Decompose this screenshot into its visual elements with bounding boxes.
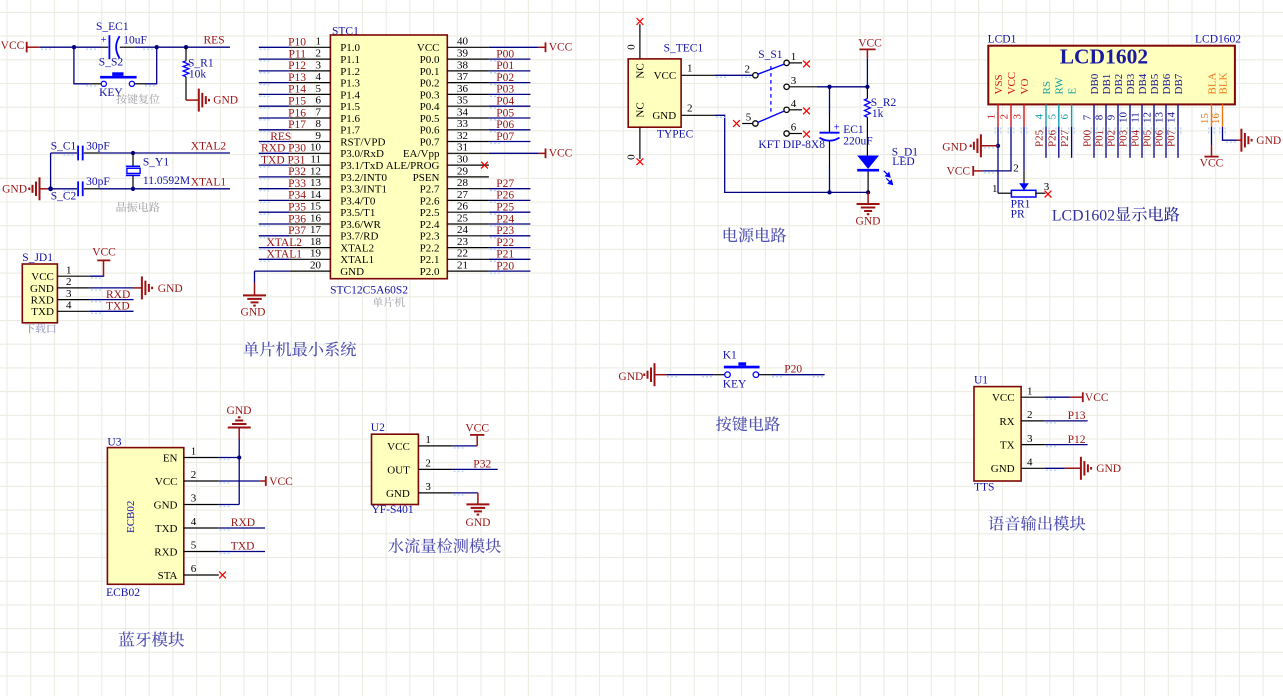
svg-text:P3.6/WR: P3.6/WR bbox=[340, 219, 381, 231]
svg-text:8: 8 bbox=[316, 118, 322, 130]
wire S_EC1 to RES bbox=[120, 46, 135, 48]
svg-text:P1.4: P1.4 bbox=[340, 89, 360, 101]
svg-text:1: 1 bbox=[687, 63, 693, 75]
svg-text:4: 4 bbox=[316, 71, 322, 83]
svg-text:2: 2 bbox=[66, 276, 72, 288]
svg-text:25: 25 bbox=[457, 212, 469, 224]
wire U2 pin3 to GND bbox=[453, 492, 478, 494]
svg-text:YF-S401: YF-S401 bbox=[372, 504, 414, 516]
svg-text:NC: NC bbox=[634, 63, 646, 78]
svg-text:TXD: TXD bbox=[155, 523, 178, 535]
ground (S_JD1) bbox=[142, 276, 152, 299]
wire crystal left vertical bbox=[50, 153, 52, 189]
svg-text:S_Y1: S_Y1 bbox=[143, 157, 169, 169]
wire S_JD1 pin4 TXD bbox=[90, 310, 134, 312]
label 按键复位 bbox=[116, 94, 127, 104]
svg-text:P2.3: P2.3 bbox=[420, 231, 440, 243]
svg-text:RS: RS bbox=[1041, 81, 1053, 94]
svg-text:P13: P13 bbox=[288, 72, 306, 84]
potentiometer PR1 bbox=[1019, 183, 1029, 190]
svg-text:VCC: VCC bbox=[549, 148, 573, 160]
svg-text:38: 38 bbox=[457, 59, 469, 71]
svg-text:P10: P10 bbox=[288, 37, 306, 49]
pin stubs STC1 right bbox=[447, 47, 489, 271]
svg-text:U1: U1 bbox=[974, 374, 988, 386]
svg-text:P2.1: P2.1 bbox=[420, 254, 440, 266]
svg-text:2: 2 bbox=[316, 48, 322, 60]
svg-text:OUT: OUT bbox=[387, 464, 410, 476]
svg-text:VCC: VCC bbox=[1200, 158, 1224, 170]
svg-text:P13: P13 bbox=[1068, 410, 1086, 422]
pin stubs U1 bbox=[1021, 396, 1045, 398]
svg-text:S_C2: S_C2 bbox=[51, 190, 77, 202]
svg-text:19: 19 bbox=[310, 248, 322, 260]
svg-text:30pF: 30pF bbox=[86, 140, 110, 152]
svg-text:14: 14 bbox=[1166, 112, 1178, 124]
svg-text:P06: P06 bbox=[496, 119, 514, 131]
svg-text:P0.6: P0.6 bbox=[420, 125, 440, 137]
label 语音输出模块 bbox=[989, 516, 1004, 531]
svg-text:P0.1: P0.1 bbox=[420, 66, 440, 78]
svg-text:P0.2: P0.2 bbox=[420, 78, 440, 90]
svg-text:P0.3: P0.3 bbox=[420, 89, 440, 101]
svg-text:EN: EN bbox=[163, 452, 178, 464]
svg-text:35: 35 bbox=[457, 95, 469, 107]
svg-text:GND: GND bbox=[154, 499, 178, 511]
svg-text:+: + bbox=[101, 35, 107, 46]
svg-text:10uF: 10uF bbox=[123, 34, 147, 46]
label 水流量检测模块 bbox=[388, 538, 403, 553]
pin stubs STC1 left bbox=[290, 47, 331, 271]
net labels P00-P07 bbox=[496, 48, 514, 142]
svg-text:P01: P01 bbox=[496, 60, 514, 72]
resistor S_R1 10k bbox=[185, 47, 187, 61]
svg-text:3: 3 bbox=[791, 75, 797, 87]
svg-text:17: 17 bbox=[310, 224, 322, 236]
pin 1 stub TYPEC bbox=[681, 74, 715, 76]
svg-text:P2.5: P2.5 bbox=[420, 207, 440, 219]
svg-text:S_R1: S_R1 bbox=[188, 57, 214, 69]
svg-text:TXD P31: TXD P31 bbox=[261, 154, 306, 166]
svg-text:34: 34 bbox=[457, 106, 469, 118]
svg-text:11: 11 bbox=[310, 154, 321, 166]
svg-text:1: 1 bbox=[191, 446, 197, 458]
pin stubs S_JD1 bbox=[57, 275, 89, 277]
svg-text:BLK: BLK bbox=[1217, 72, 1229, 94]
svg-text:P3.4/T0: P3.4/T0 bbox=[340, 195, 376, 207]
svg-text:LED: LED bbox=[892, 156, 914, 168]
svg-text:32: 32 bbox=[457, 130, 468, 142]
svg-text:P3.3/INT1: P3.3/INT1 bbox=[340, 184, 387, 196]
label 蓝牙模块 bbox=[119, 632, 135, 647]
pin stubs LCD1 15-16 bbox=[1211, 104, 1213, 126]
svg-text:10k: 10k bbox=[189, 69, 207, 81]
svg-text:1: 1 bbox=[1027, 385, 1033, 397]
pin names STC1 right bbox=[386, 42, 440, 278]
svg-text:LCD1: LCD1 bbox=[988, 33, 1017, 45]
svg-text:12: 12 bbox=[310, 165, 321, 177]
svg-text:LCD1602: LCD1602 bbox=[1052, 207, 1115, 224]
label 单片机最小系统 bbox=[244, 342, 259, 357]
wire TYPEC pin1 to switch bbox=[715, 74, 753, 76]
pin stubs U3 bbox=[184, 457, 219, 459]
svg-text:RXD: RXD bbox=[231, 517, 255, 529]
svg-text:GND: GND bbox=[618, 371, 643, 383]
svg-text:DB7: DB7 bbox=[1173, 73, 1185, 94]
wire XTAL2 bbox=[51, 152, 77, 154]
wire U1 pin1 to VCC bbox=[1045, 396, 1071, 398]
svg-text:P35: P35 bbox=[288, 202, 306, 214]
svg-text:3: 3 bbox=[191, 493, 197, 505]
svg-text:P17: P17 bbox=[288, 119, 306, 131]
svg-text:P2.4: P2.4 bbox=[420, 219, 440, 231]
svg-text:DB1: DB1 bbox=[1101, 74, 1113, 95]
svg-text:ECB02: ECB02 bbox=[125, 501, 137, 533]
wire TYPEC pin2 to rail bbox=[715, 115, 868, 192]
svg-text:0: 0 bbox=[626, 154, 638, 160]
svg-text:5: 5 bbox=[316, 83, 322, 95]
no-connect X (TYPEC top) bbox=[637, 18, 644, 25]
wire XTAL1 bbox=[51, 188, 77, 190]
junction (LED bottom) bbox=[866, 190, 870, 194]
wire U2 pin2 P32 bbox=[453, 468, 498, 470]
svg-text:GND: GND bbox=[340, 266, 364, 278]
power port VCC (U2) bbox=[476, 435, 478, 446]
no-connect X pin30 bbox=[481, 162, 488, 169]
svg-text:GND: GND bbox=[466, 517, 491, 529]
junction (VSS/GND) bbox=[996, 144, 1000, 148]
capacitor EC1 220uF bbox=[829, 87, 831, 114]
svg-text:S_S2: S_S2 bbox=[99, 56, 124, 68]
svg-text:13: 13 bbox=[1154, 112, 1166, 124]
label 单片机 bbox=[373, 297, 383, 307]
resistor S_R2 1k bbox=[866, 87, 868, 99]
wire GND to K1 bbox=[655, 374, 667, 376]
svg-text:DB0: DB0 bbox=[1089, 73, 1101, 94]
svg-text:2: 2 bbox=[999, 114, 1011, 120]
junction (U3 EN) bbox=[237, 455, 241, 459]
svg-text:S_EC1: S_EC1 bbox=[96, 21, 129, 33]
svg-text:GND: GND bbox=[158, 283, 183, 295]
svg-text:TXD: TXD bbox=[231, 541, 255, 553]
svg-text:28: 28 bbox=[457, 177, 469, 189]
svg-text:P0.4: P0.4 bbox=[420, 101, 440, 113]
wire switch pin3 node bbox=[789, 86, 817, 88]
svg-text:14: 14 bbox=[310, 189, 322, 201]
svg-text:1: 1 bbox=[316, 36, 322, 48]
svg-text:P2.0: P2.0 bbox=[420, 266, 440, 278]
pin stubs LCD1 4-6 bbox=[1045, 104, 1047, 126]
switch pin6 lead and X bbox=[789, 133, 802, 135]
svg-text:11.0592M: 11.0592M bbox=[143, 175, 190, 187]
svg-text:40: 40 bbox=[457, 36, 469, 48]
svg-text:P2.7: P2.7 bbox=[420, 184, 440, 196]
net labels P32-P37 bbox=[288, 166, 306, 237]
wire U1 pin3 P12 bbox=[1045, 444, 1088, 446]
svg-text:VCC: VCC bbox=[417, 42, 440, 54]
svg-text:VO: VO bbox=[1019, 79, 1031, 95]
svg-text:6: 6 bbox=[191, 563, 197, 575]
svg-text:VCC: VCC bbox=[155, 476, 178, 488]
svg-text:P26: P26 bbox=[496, 190, 514, 202]
svg-text:KFT DIP-8X8: KFT DIP-8X8 bbox=[758, 139, 825, 151]
svg-text:DB3: DB3 bbox=[1125, 73, 1137, 94]
svg-text:VCC: VCC bbox=[1085, 392, 1109, 404]
svg-text:XTAL2: XTAL2 bbox=[191, 141, 227, 153]
power port VCC (LCD left) bbox=[972, 166, 974, 176]
svg-text:VCC: VCC bbox=[1, 40, 25, 52]
svg-text:2: 2 bbox=[745, 64, 751, 76]
svg-text:15: 15 bbox=[310, 201, 322, 213]
svg-text:P32: P32 bbox=[288, 166, 306, 178]
junction (S_R1 top) bbox=[184, 45, 188, 49]
wire VO pin3 to wiper bbox=[1023, 127, 1025, 171]
wire U3 pin2 to VCC bbox=[219, 480, 259, 482]
switch pin4 lead and X bbox=[789, 109, 802, 111]
svg-text:P2.2: P2.2 bbox=[420, 243, 440, 255]
svg-text:P1.0: P1.0 bbox=[340, 42, 360, 54]
wire U1 pin4 to GND bbox=[1045, 467, 1065, 469]
svg-text:5: 5 bbox=[1046, 114, 1058, 120]
svg-text:27: 27 bbox=[457, 189, 469, 201]
svg-text:VCC: VCC bbox=[92, 247, 116, 259]
svg-text:P23: P23 bbox=[496, 225, 514, 237]
svg-text:RX: RX bbox=[999, 416, 1014, 428]
svg-text:3: 3 bbox=[1012, 114, 1024, 120]
wire S_S2 right leg bbox=[135, 83, 146, 85]
svg-text:10: 10 bbox=[1118, 112, 1130, 124]
svg-text:33: 33 bbox=[457, 118, 469, 130]
wires DB0-DB7 with net labels P00-P07 bbox=[1093, 127, 1095, 158]
svg-text:P00: P00 bbox=[496, 48, 514, 60]
svg-text:1: 1 bbox=[66, 264, 72, 276]
svg-text:KEY: KEY bbox=[723, 379, 747, 391]
svg-text:P22: P22 bbox=[496, 237, 514, 249]
ground (LCD right) bbox=[1241, 129, 1251, 152]
svg-text:4: 4 bbox=[1034, 114, 1046, 120]
svg-text:4: 4 bbox=[66, 300, 72, 312]
svg-text:P1.6: P1.6 bbox=[340, 113, 360, 125]
svg-text:VCC: VCC bbox=[858, 37, 882, 49]
junction (crystal bottom) bbox=[131, 187, 135, 191]
no-connect X (TYPEC bottom) bbox=[637, 158, 644, 165]
svg-text:S_TEC1: S_TEC1 bbox=[664, 42, 704, 54]
svg-text:P14: P14 bbox=[288, 84, 306, 96]
wire VCC pin2 bbox=[982, 127, 1011, 171]
svg-text:TXD: TXD bbox=[31, 306, 54, 318]
svg-text:STA: STA bbox=[158, 570, 178, 582]
svg-text:PR: PR bbox=[1011, 209, 1025, 221]
junction (VCC rail) bbox=[865, 85, 869, 89]
svg-text:1k: 1k bbox=[872, 108, 884, 120]
svg-text:DB5: DB5 bbox=[1149, 73, 1161, 94]
wire BLA pin15 to VCC bbox=[1211, 127, 1213, 146]
svg-text:6: 6 bbox=[791, 122, 797, 134]
svg-text:GND: GND bbox=[227, 405, 252, 417]
svg-text:KEY: KEY bbox=[99, 87, 123, 99]
power port VCC (U3) bbox=[265, 476, 267, 486]
junction (S_EC1/S_S2 right) bbox=[155, 45, 159, 49]
svg-text:P3.0/RxD: P3.0/RxD bbox=[340, 148, 384, 160]
svg-text:P1.3: P1.3 bbox=[340, 78, 360, 90]
svg-text:P24: P24 bbox=[496, 213, 514, 225]
pin 0 bottom TYPEC bbox=[639, 127, 641, 159]
svg-text:TX: TX bbox=[1000, 440, 1015, 452]
svg-text:VSS: VSS bbox=[993, 74, 1005, 94]
svg-text:DB2: DB2 bbox=[1113, 74, 1125, 95]
svg-text:5: 5 bbox=[746, 112, 752, 124]
svg-text:2: 2 bbox=[191, 469, 197, 481]
svg-text:2: 2 bbox=[1013, 163, 1019, 175]
compile marks bbox=[41, 49, 1236, 553]
svg-text:P3.5/T1: P3.5/T1 bbox=[340, 207, 375, 219]
power port VCC (LCD pin15) bbox=[1211, 145, 1213, 156]
wire BLK pin16 to GND bbox=[1223, 127, 1237, 141]
svg-text:220uF: 220uF bbox=[843, 135, 872, 147]
svg-text:GND: GND bbox=[30, 283, 54, 295]
svg-text:P02: P02 bbox=[496, 72, 514, 84]
svg-text:2: 2 bbox=[687, 103, 693, 115]
wire K1 to P20 bbox=[771, 374, 825, 376]
svg-text:+: + bbox=[834, 122, 840, 134]
svg-text:20: 20 bbox=[310, 260, 322, 272]
svg-text:4: 4 bbox=[1027, 457, 1033, 469]
ground (STC1) bbox=[243, 295, 266, 305]
svg-text:GND: GND bbox=[386, 488, 410, 500]
svg-text:P36: P36 bbox=[288, 213, 306, 225]
svg-text:P37: P37 bbox=[288, 225, 306, 237]
svg-text:16: 16 bbox=[310, 212, 322, 224]
svg-text:GND: GND bbox=[2, 184, 27, 196]
svg-text:13: 13 bbox=[310, 177, 322, 189]
svg-text:P1.1: P1.1 bbox=[340, 54, 360, 66]
svg-text:P2.6: P2.6 bbox=[420, 195, 440, 207]
pin 2 stub TYPEC bbox=[681, 114, 715, 116]
svg-text:VCC: VCC bbox=[992, 392, 1015, 404]
wire U1 pin2 P13 bbox=[1045, 420, 1088, 422]
wire S_R1 to GND bbox=[186, 99, 199, 101]
pin numbers STC1 left 1-20 bbox=[310, 36, 322, 272]
svg-text:VCC: VCC bbox=[549, 42, 573, 54]
pin names STC1 left bbox=[340, 42, 387, 278]
svg-text:P27: P27 bbox=[496, 178, 514, 190]
svg-text:GND: GND bbox=[652, 110, 676, 122]
wire U3 pin4 RXD bbox=[219, 527, 265, 529]
svg-text:3: 3 bbox=[425, 481, 431, 493]
svg-text:VCC: VCC bbox=[465, 422, 489, 434]
svg-text:P3.2/INT0: P3.2/INT0 bbox=[340, 172, 387, 184]
pin numbers STC1 right 40-21 bbox=[457, 36, 469, 272]
wires STC1 left rows bbox=[259, 47, 290, 259]
svg-text:P3.1/TxD: P3.1/TxD bbox=[340, 160, 383, 172]
svg-text:23: 23 bbox=[457, 236, 469, 248]
wire S_JD1 pin2 to GND bbox=[90, 287, 134, 289]
svg-text:S_JD1: S_JD1 bbox=[22, 252, 53, 264]
pin 0 top TYPEC bbox=[639, 24, 641, 59]
svg-text:VCC: VCC bbox=[387, 441, 410, 453]
svg-text:P34: P34 bbox=[288, 190, 306, 202]
ground (U1) bbox=[1081, 457, 1091, 480]
svg-text:18: 18 bbox=[310, 236, 322, 248]
svg-text:9: 9 bbox=[316, 130, 322, 142]
wire U3 EN/GND vertical bbox=[238, 439, 240, 505]
ground (reset) bbox=[199, 89, 209, 112]
svg-text:EC1: EC1 bbox=[843, 124, 864, 136]
svg-text:K1: K1 bbox=[723, 349, 737, 361]
wire S_JD1 pin1 to VCC bbox=[90, 275, 104, 276]
svg-text:3: 3 bbox=[1027, 433, 1033, 445]
svg-text:11: 11 bbox=[1130, 112, 1142, 123]
svg-text:P0.7: P0.7 bbox=[420, 136, 440, 148]
svg-text:P04: P04 bbox=[496, 96, 514, 108]
svg-text:S_S1: S_S1 bbox=[758, 49, 783, 61]
svg-text:31: 31 bbox=[457, 142, 468, 154]
junction (EC1 top) bbox=[827, 85, 831, 89]
svg-text:VCC: VCC bbox=[31, 271, 54, 283]
wires RS RW E with net labels P25-P27 bbox=[1045, 127, 1047, 158]
svg-text:RXD: RXD bbox=[154, 546, 177, 558]
svg-text:XTAL1: XTAL1 bbox=[340, 254, 374, 266]
svg-text:P1.2: P1.2 bbox=[340, 66, 360, 78]
label 电源电路 bbox=[724, 227, 738, 242]
svg-text:P0.0: P0.0 bbox=[420, 54, 440, 66]
svg-text:1: 1 bbox=[791, 51, 797, 63]
svg-text:6: 6 bbox=[316, 95, 322, 107]
svg-text:VCC: VCC bbox=[269, 476, 293, 488]
label 按键电路 bbox=[716, 416, 731, 431]
svg-text:P16: P16 bbox=[288, 107, 306, 119]
svg-text:P1.7: P1.7 bbox=[340, 125, 360, 137]
ground (power circuit) bbox=[867, 192, 869, 204]
svg-text:LCD1602: LCD1602 bbox=[1060, 45, 1148, 69]
svg-text:8: 8 bbox=[1094, 114, 1106, 120]
power port VCC (pin40) bbox=[489, 46, 539, 48]
pin stubs LCD1 1-3 bbox=[997, 104, 999, 126]
wire GND to junction bbox=[40, 188, 51, 190]
svg-text:RXD P30: RXD P30 bbox=[261, 143, 306, 155]
svg-text:RXD: RXD bbox=[106, 289, 130, 301]
svg-text:7: 7 bbox=[316, 106, 322, 118]
svg-text:S_C1: S_C1 bbox=[51, 140, 77, 152]
svg-text:XTAL2: XTAL2 bbox=[267, 237, 303, 249]
svg-text:XTAL1: XTAL1 bbox=[191, 176, 227, 188]
svg-text:2: 2 bbox=[1027, 409, 1033, 421]
svg-text:4: 4 bbox=[191, 516, 197, 528]
svg-text:P1.5: P1.5 bbox=[340, 101, 360, 113]
svg-text:37: 37 bbox=[457, 71, 469, 83]
svg-text:S_R2: S_R2 bbox=[871, 97, 897, 109]
svg-text:P21: P21 bbox=[496, 249, 514, 261]
svg-text:P25: P25 bbox=[496, 202, 514, 214]
svg-text:29: 29 bbox=[457, 165, 469, 177]
power port VCC (pin31 EA/Vpp) bbox=[489, 152, 539, 154]
svg-text:12: 12 bbox=[1142, 112, 1154, 123]
wire S_S2 left leg bbox=[90, 83, 101, 85]
wire U3 pin3 GND bbox=[219, 504, 239, 506]
svg-text:P0.5: P0.5 bbox=[420, 113, 440, 125]
svg-text:2: 2 bbox=[425, 458, 431, 470]
wire GND pin20 bbox=[255, 270, 290, 272]
svg-text:21: 21 bbox=[457, 260, 468, 272]
label 下载口 bbox=[25, 324, 35, 334]
svg-text:ALE/PROG: ALE/PROG bbox=[386, 160, 440, 172]
svg-text:GND: GND bbox=[991, 463, 1015, 475]
svg-text:STC12C5A60S2: STC12C5A60S2 bbox=[330, 284, 408, 296]
svg-text:VCC: VCC bbox=[654, 70, 677, 82]
svg-text:10: 10 bbox=[310, 142, 322, 154]
svg-text:LCD1602: LCD1602 bbox=[1195, 33, 1241, 45]
svg-text:22: 22 bbox=[457, 248, 468, 260]
